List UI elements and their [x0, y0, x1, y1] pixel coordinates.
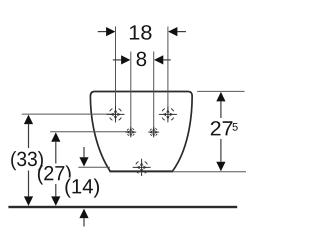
dim 14 upper arrowhead	[79, 157, 88, 166]
dim 33 line upper segment	[28, 124, 30, 148]
dim 18 left tail	[98, 31, 107, 33]
fixing point upper-left	[107, 106, 125, 122]
dim 14 upper leader line	[83, 147, 85, 157]
dim 33 label	[11, 151, 43, 170]
dim 14 lower leader line	[83, 218, 85, 226]
dim 27 label	[38, 165, 71, 184]
dim 27.5 sup label	[233, 123, 238, 131]
dim 27.5 top extension line	[197, 90, 244, 92]
dim 8 right tail	[163, 59, 171, 61]
floor line	[8, 206, 237, 208]
dim 27.5 bottom extension line	[174, 171, 246, 173]
dim 18 left arrowhead	[106, 27, 115, 36]
dim 27 extension line to mid-left fixing point	[50, 131, 131, 133]
dim 8 left tail	[113, 59, 121, 61]
dim 8 extension line right	[153, 52, 155, 133]
dim 14 lower arrowhead	[79, 209, 88, 219]
dim 27.5 line lower segment	[220, 139, 222, 162]
bidet bottom edge	[109, 170, 173, 172]
dim 18 right arrowhead	[168, 27, 177, 36]
fixing point bottom-centre	[133, 159, 151, 176]
dim 27.5 line upper segment	[220, 101, 222, 118]
dim 27 line lower segment	[55, 184, 57, 196]
dim 14 extension line to body side	[78, 166, 110, 168]
fixing point upper-right	[159, 106, 177, 122]
dim 27 bottom arrowhead	[51, 196, 60, 206]
dim 33 line lower segment	[28, 171, 30, 197]
dim 14 label	[65, 178, 101, 197]
dim 18 right tail	[177, 31, 186, 33]
dim 8 extension line left	[130, 52, 132, 133]
dim 27 line upper segment	[55, 141, 57, 163]
dim 18 label	[130, 25, 152, 40]
dim 27.5 label	[211, 121, 233, 135]
dim 33 top arrowhead	[24, 115, 33, 125]
dim 27.5 bottom arrowhead	[216, 162, 225, 172]
fixing point mid-right	[148, 127, 159, 138]
dim 27 top arrowhead	[51, 132, 60, 142]
dim 8 left arrowhead	[121, 55, 130, 64]
dim 18 extension line right	[167, 27, 169, 115]
fixing point mid-left	[125, 127, 136, 138]
dim 33 extension line to upper-left fixing point	[22, 113, 116, 115]
bidet body outline	[90, 92, 192, 171]
dim 33 bottom arrowhead	[24, 196, 33, 206]
dim 18 extension line left	[115, 27, 117, 115]
dim 8 label	[137, 52, 147, 67]
dim 27.5 top arrowhead	[216, 92, 225, 102]
dim 8 right arrowhead	[154, 55, 163, 64]
